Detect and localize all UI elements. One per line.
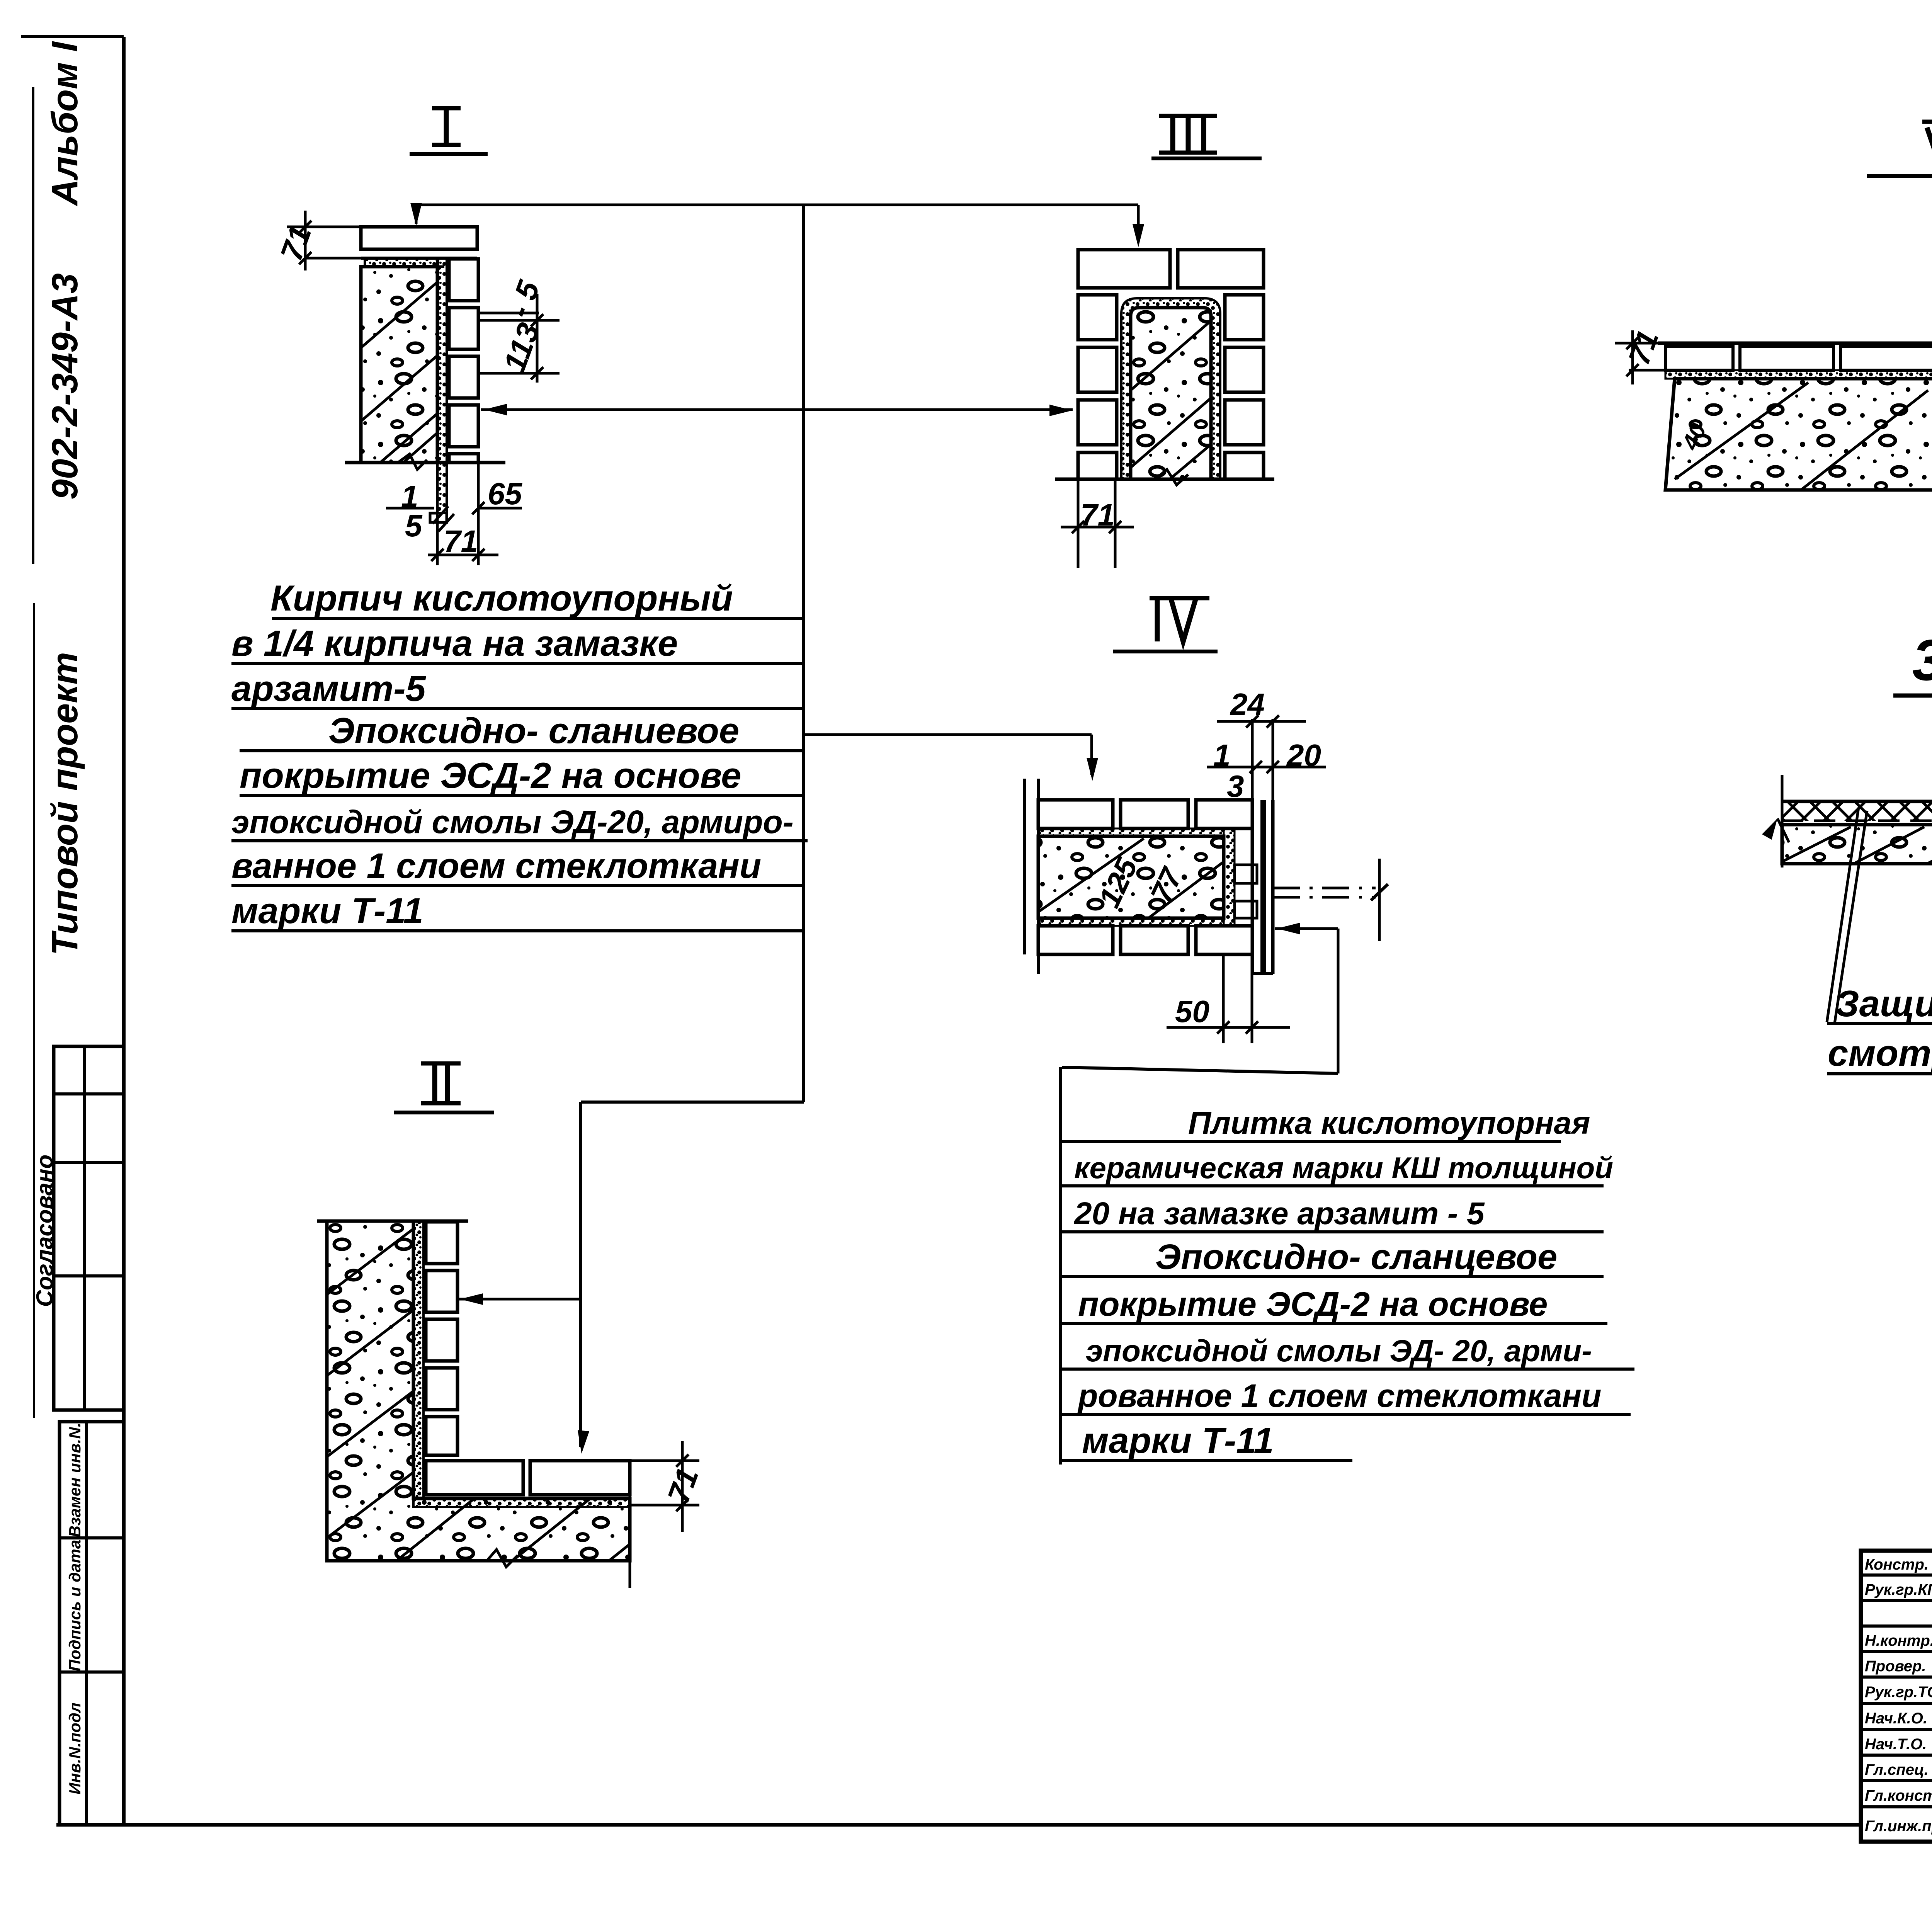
detail I brick lining — [449, 259, 478, 301]
svg-text:Констр.: Констр. — [1865, 1556, 1929, 1573]
detail I dim 113 right — [536, 294, 539, 383]
rotated label Взамен инв N — [66, 1423, 84, 1538]
detail IV top dim 24 — [1251, 719, 1254, 800]
svg-text:смотри лист 28: смотри лист 28 — [1828, 1032, 1932, 1074]
svg-text:65: 65 — [488, 476, 522, 511]
svg-text:Инв.N.подл: Инв.N.подл — [66, 1703, 84, 1795]
detail II tile L-layer — [413, 1221, 423, 1499]
detail IV wall cut left edges — [1023, 779, 1026, 954]
svg-text:Нач.К.О.: Нач.К.О. — [1865, 1710, 1927, 1727]
svg-text:Защиту лотка: Защиту лотка — [1835, 983, 1932, 1024]
svg-text:рованное 1 слоем стеклоткани: рованное 1 слоем стеклоткани — [1077, 1378, 1601, 1414]
detail III dim 71 — [1077, 479, 1080, 568]
note block 1 leader vertical — [802, 205, 805, 1102]
svg-text:эпоксидной смолы ЭД- 20, арм: эпоксидной смолы ЭД- 20, арми- — [1086, 1334, 1592, 1368]
detail II floor bricks — [426, 1461, 523, 1495]
detail III core break — [1155, 469, 1188, 485]
detail IV pipe dash-dot — [1273, 887, 1376, 890]
svg-text:20 на замазке арзамит - 5: 20 на замазке арзамит - 5 — [1073, 1196, 1485, 1231]
svg-text:1: 1 — [1213, 738, 1231, 772]
detail II floor break bottom — [487, 1550, 518, 1567]
detail V base small label 40 — [1677, 419, 1711, 454]
svg-text:902-2-349-А3: 902-2-349-А3 — [44, 273, 85, 500]
detail IV bottom brick band — [1038, 926, 1113, 954]
svg-text:марки Т-11: марки Т-11 — [231, 890, 423, 931]
detail I dim 5 joint right — [478, 312, 539, 315]
svg-text:Подпись и дата: Подпись и дата — [66, 1540, 84, 1671]
detail I dim 71 bottom — [428, 554, 498, 556]
svg-text:Гл.инж.пр.: Гл.инж.пр. — [1865, 1818, 1932, 1835]
svg-text:Рук.гр.ТО: Рук.гр.ТО — [1865, 1684, 1932, 1701]
top-left frame stub — [21, 35, 124, 38]
detail III ground line — [1055, 478, 1274, 481]
svg-text:Провер.: Провер. — [1865, 1658, 1926, 1675]
section 3-3 left slab crosshatch — [1782, 801, 1932, 821]
detail I leader mid (to detail III left) — [481, 408, 1073, 411]
svg-text:Рук.гр.КП: Рук.гр.КП — [1865, 1581, 1932, 1598]
svg-text:Гл.спец.: Гл.спец. — [1865, 1761, 1929, 1778]
svg-text:арзамит-5: арзамит-5 — [231, 668, 427, 709]
detail II dim 71 right — [630, 1459, 699, 1462]
detail I top slab — [361, 227, 477, 249]
detail I ground line — [345, 461, 505, 464]
left inventory table lower — [60, 1422, 124, 1825]
section 3-3 leader Защиту — [1827, 808, 1859, 1022]
detail I leader arrow into detail III top — [1137, 205, 1140, 242]
left margin stamp text: Согласовано — [32, 1155, 58, 1307]
svg-text:5: 5 — [405, 509, 423, 543]
detail II wall top break — [317, 1220, 468, 1223]
svg-text:20: 20 — [1286, 738, 1321, 772]
detail IV top tile band — [1038, 828, 1224, 836]
detail IV label — [1155, 598, 1160, 641]
svg-text:эпоксидной смолы ЭД-20, армиро: эпоксидной смолы ЭД-20, армиро- — [231, 804, 794, 840]
section 3-3 left ext line — [1781, 775, 1784, 867]
svg-text:71: 71 — [444, 524, 478, 558]
detail I dim 71 top left — [287, 226, 361, 228]
bottom line of title block — [1861, 1840, 1932, 1844]
detail IV top brick band — [1038, 800, 1113, 828]
svg-text:керамическая марки КШ толщин: керамическая марки КШ толщиной — [1074, 1151, 1613, 1185]
note block 1 leader to detail IV — [804, 733, 1092, 736]
detail V dim 71 left — [1615, 342, 1665, 345]
svg-text:Кирпич кислотоупорный: Кирпич кислотоупорный — [270, 578, 733, 618]
svg-text:покрытие ЭСД-2 на основе: покрытие ЭСД-2 на основе — [240, 755, 741, 796]
detail IV pipe end bar — [1378, 859, 1381, 941]
svg-text:покрытие ЭСД-2 на основе: покрытие ЭСД-2 на основе — [1078, 1285, 1548, 1323]
svg-text:24: 24 — [1230, 687, 1265, 721]
left margin stamp text: 902-2-349-А3 — [44, 273, 85, 500]
detail IV dim 50 — [1222, 954, 1225, 1043]
detail I brick edge extension below — [477, 463, 480, 565]
title block signature table — [1861, 1551, 1932, 1842]
svg-text:марки Т-11: марки Т-11 — [1082, 1420, 1274, 1461]
detail IV dim 125 rotated — [1092, 852, 1144, 913]
detail I tile layer (vertical + top) — [437, 258, 447, 513]
detail II ext line right — [629, 1461, 631, 1588]
section 3-3 left end arrow — [1762, 818, 1777, 840]
detail III label — [1170, 116, 1175, 153]
svg-text:Типовой проект: Типовой проект — [44, 652, 85, 956]
sheet bottom border — [56, 1823, 1861, 1827]
rotated label Подпись и дата — [66, 1540, 84, 1671]
detail I label — [444, 108, 449, 145]
detail I wall break mark — [398, 454, 427, 469]
left approval table upper — [54, 1046, 124, 1410]
svg-text:3 - 3: 3 - 3 — [1912, 628, 1932, 692]
detail V label — [1922, 120, 1932, 124]
svg-text:Н.контр.: Н.контр. — [1865, 1632, 1932, 1649]
detail II label — [432, 1063, 437, 1103]
detail II wall brick lining — [426, 1222, 457, 1264]
detail I screed lines under slab — [361, 265, 444, 268]
svg-text:в 1/4 кирпича на замазке: в 1/4 кирпича на замазке — [231, 623, 678, 663]
detail IV bottom tile band — [1038, 918, 1224, 926]
left margin stamp text: Альбом I — [44, 41, 85, 206]
detail I leader to text row1 (top) — [416, 204, 1138, 206]
svg-text:Альбом I: Альбом I — [44, 41, 85, 206]
svg-text:Нач.Т.О.: Нач.Т.О. — [1865, 1736, 1927, 1753]
svg-text:Гл.констр: Гл.констр — [1865, 1787, 1932, 1804]
detail III outer bricks top row — [1078, 250, 1170, 288]
detail II leader arrow horizontal — [458, 1298, 581, 1301]
detail V floor bricks — [1658, 342, 1932, 345]
svg-text:Взамен инв.N.: Взамен инв.N. — [66, 1423, 84, 1538]
detail V floor tile band — [1665, 370, 1932, 379]
svg-text:ванное 1 слоем стеклоткани: ванное 1 слоем стеклоткани — [231, 846, 761, 886]
detail IV dim 77 rotated — [1144, 862, 1189, 908]
note block 1 leader to detail II — [581, 1101, 804, 1104]
sheet frame left vertical — [122, 37, 126, 1825]
left margin stamp text: Типовой проект — [44, 652, 85, 956]
detail III left brick column — [1078, 295, 1117, 340]
outer scan edge left (broken) — [32, 87, 34, 564]
detail III right brick column — [1225, 295, 1264, 340]
note block 2 top border — [1062, 1067, 1338, 1073]
rotated label Инв N подл — [66, 1703, 84, 1795]
detail I tile foot — [430, 513, 447, 522]
svg-text:Плитка кислотоупорная: Плитка кислотоупорная — [1188, 1106, 1590, 1141]
detail IV right leader to note block 2 — [1275, 927, 1338, 930]
detail IV right tile wrap — [1224, 828, 1235, 926]
svg-text:Эпоксидно- сланцевое: Эпоксидно- сланцевое — [1155, 1237, 1557, 1277]
svg-text:50: 50 — [1175, 994, 1209, 1029]
svg-text:71: 71 — [1080, 498, 1115, 532]
note block 2 left border — [1059, 1067, 1062, 1465]
detail IV dim 1 and 20 — [1207, 766, 1326, 769]
detail III tile ring — [1121, 298, 1220, 479]
detail IV right closure boards — [1251, 800, 1254, 974]
svg-text:Эпоксидно- сланиевое: Эпоксидно- сланиевое — [328, 710, 739, 751]
